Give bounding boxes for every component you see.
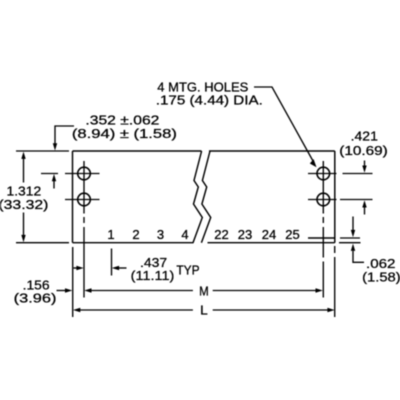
svg-text:M: M xyxy=(199,283,209,298)
dim 0.421 upper arrow (down) xyxy=(364,161,366,167)
svg-text:(33.32): (33.32) xyxy=(0,197,48,212)
crosshair horizontal bottom-left hole xyxy=(65,199,100,201)
connector body outline top edge right segment xyxy=(209,150,335,152)
extension line for pin ledge right xyxy=(340,237,360,239)
crosshair horizontal top-right hole xyxy=(308,173,337,175)
extension line left of top-left hole xyxy=(41,173,58,175)
dim 0.437 right arrow (left) xyxy=(119,267,127,269)
crosshair horizontal bottom-right hole xyxy=(308,199,337,201)
svg-text:22: 22 xyxy=(214,227,228,242)
svg-text:.175 (4.44) DIA.: .175 (4.44) DIA. xyxy=(156,93,263,108)
connector body bottom edge left segment xyxy=(73,242,194,244)
dim M dimension line xyxy=(91,290,316,292)
pin 1 centerline extension xyxy=(111,249,113,276)
mounting hole bottom-right xyxy=(317,193,330,206)
left edge extension below body xyxy=(72,247,74,317)
mounting hole top-left xyxy=(78,167,91,180)
svg-text:2: 2 xyxy=(132,227,139,242)
dim 0.437 left arrow (right) xyxy=(74,267,78,269)
mounting hole bottom-left xyxy=(78,193,91,206)
svg-text:3: 3 xyxy=(157,227,164,242)
mounting hole top-right xyxy=(317,167,330,180)
dim 0.062 upper arrow (down) xyxy=(352,217,354,231)
connector body right edge xyxy=(334,151,336,243)
pin row ledge line bottom right xyxy=(308,237,335,239)
connector body outline top edge left segment xyxy=(73,150,202,152)
connector body left edge xyxy=(72,151,74,243)
dim 1.312 top extension line xyxy=(16,150,69,152)
break line left zigzag xyxy=(193,151,202,243)
svg-text:24: 24 xyxy=(262,227,276,242)
dim 0.352 lower arrow (up) xyxy=(53,181,55,189)
svg-text:1: 1 xyxy=(107,227,114,242)
crosshair horizontal top-left hole xyxy=(65,173,100,175)
extension line right of top-right hole xyxy=(343,173,373,175)
svg-text:23: 23 xyxy=(238,227,252,242)
right holes vertical centerline xyxy=(322,161,324,298)
right edge extension below body xyxy=(334,246,336,317)
dim L dimension line xyxy=(80,309,328,311)
svg-text:L: L xyxy=(200,303,208,318)
svg-text:.421: .421 xyxy=(351,129,378,144)
svg-text:4: 4 xyxy=(181,227,188,242)
leader from 4 MTG HOLES note to top-right hole xyxy=(254,87,313,161)
extension line for bottom edge right xyxy=(339,242,361,244)
dim 0.421 lower arrow (up) xyxy=(364,208,366,215)
svg-text:TYP: TYP xyxy=(176,263,199,278)
dim 1.312 dimension line with arrows xyxy=(23,159,25,236)
svg-text:(1.58): (1.58) xyxy=(362,270,400,285)
break line right zigzag xyxy=(201,151,210,243)
svg-text:25: 25 xyxy=(285,227,299,242)
svg-text:(10.69): (10.69) xyxy=(339,143,388,158)
connector body bottom edge right segment xyxy=(208,242,335,244)
svg-text:(3.96): (3.96) xyxy=(14,291,57,306)
left holes vertical centerline xyxy=(83,161,85,298)
svg-text:(8.94) ± (1.58): (8.94) ± (1.58) xyxy=(72,126,177,141)
dim 0.062 lower arrow (up) with leader to text xyxy=(353,251,364,262)
extension line right of bottom-right hole xyxy=(340,199,373,201)
dim 1.312 bottom extension line xyxy=(16,242,69,244)
dim 0.352 leader and upper arrow (down) xyxy=(55,126,74,144)
dim 0.156 arrow (right) xyxy=(57,290,67,292)
svg-text:(11.11): (11.11) xyxy=(131,268,175,283)
